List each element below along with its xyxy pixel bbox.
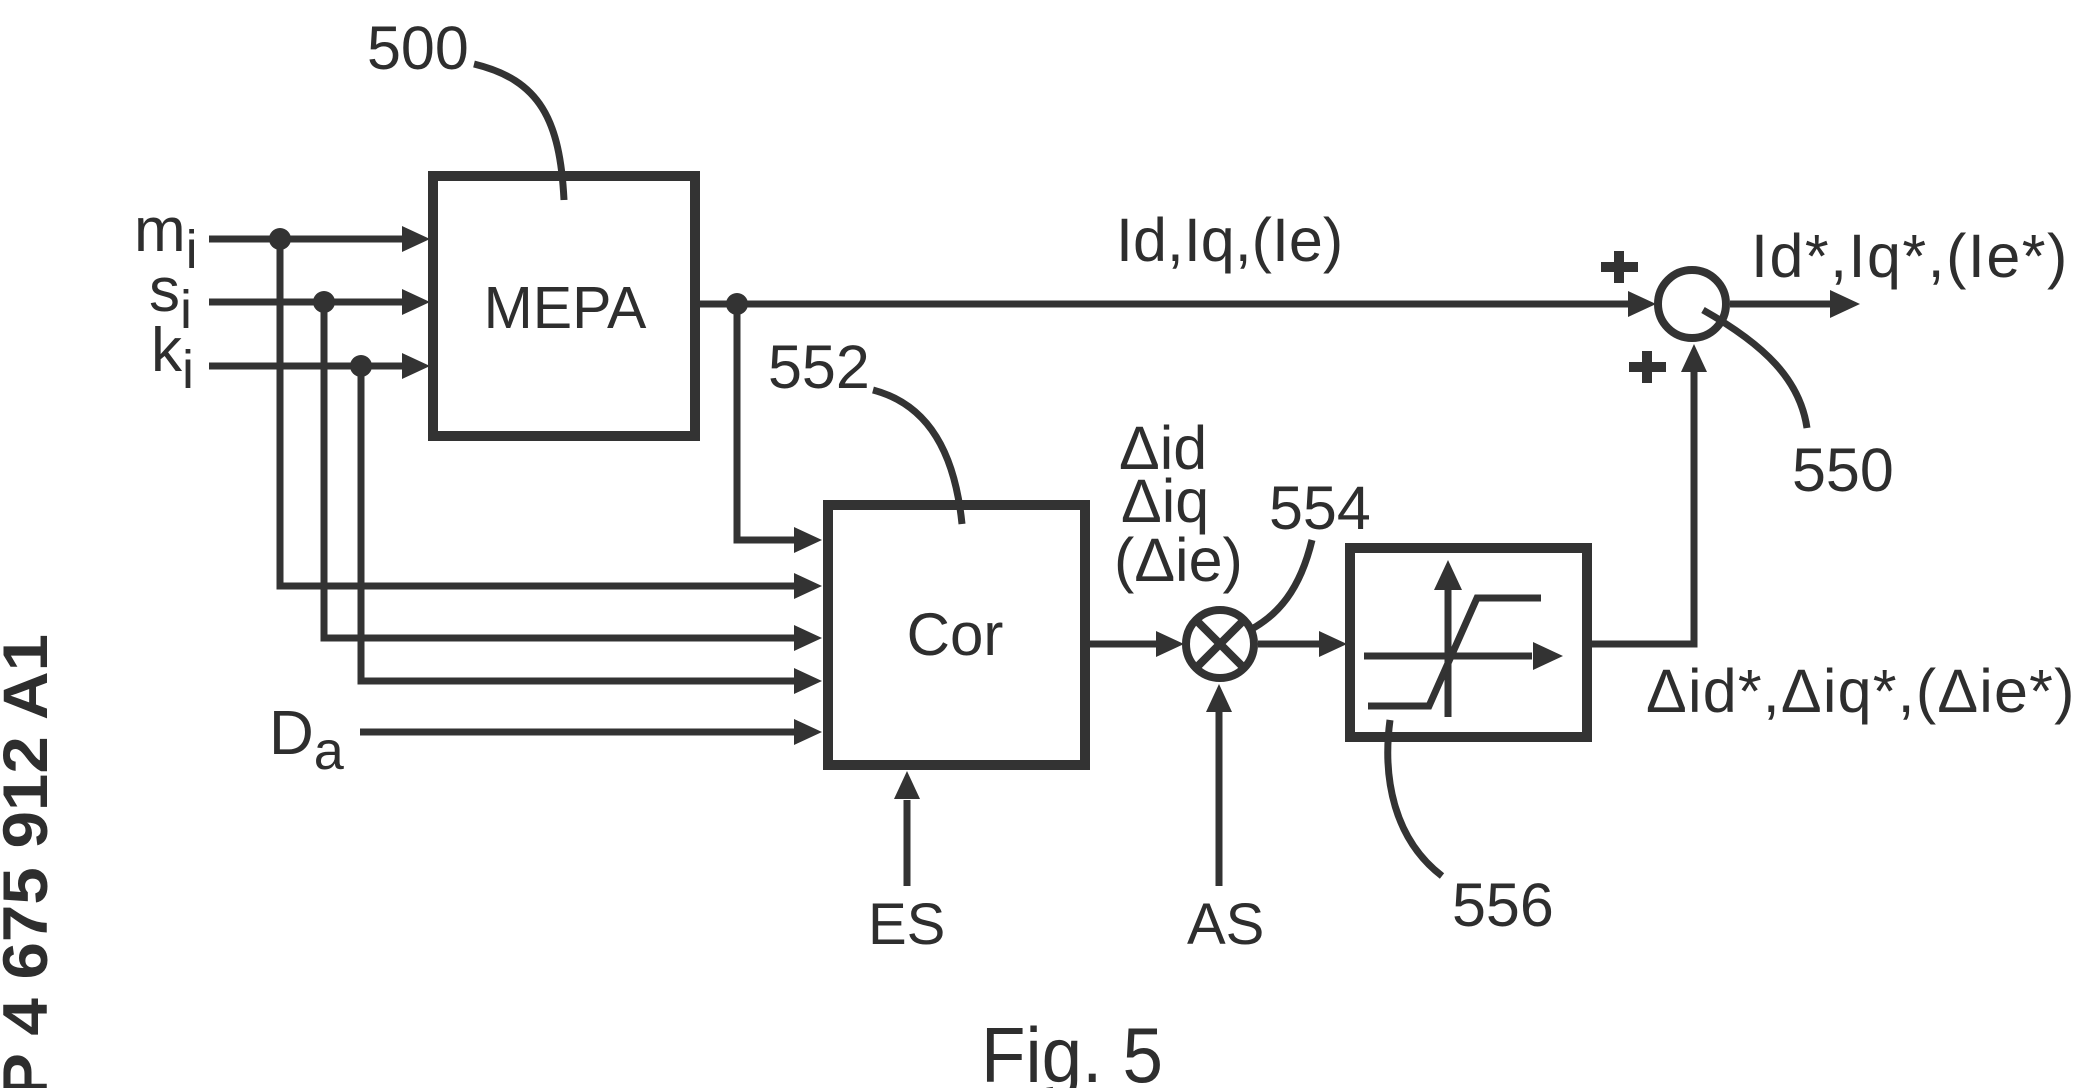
block limiter (556) (1350, 548, 1587, 737)
svg-text:Δiq: Δiq (1121, 467, 1209, 535)
plus sign upper (1601, 251, 1638, 283)
wire multiplier to limiter (1258, 641, 1321, 648)
summing output arrow (1730, 301, 1832, 308)
svg-text:P 4 675 912 A1: P 4 675 912 A1 (0, 634, 61, 1088)
wire MEPA output to summing junction (695, 301, 1630, 308)
node on s wire (313, 291, 335, 313)
leader 556 (1388, 720, 1442, 876)
leader 554 (1250, 540, 1312, 630)
node on m wire (269, 228, 291, 250)
limiter saturation curve (1368, 598, 1541, 706)
multiplier circle 554 (1186, 610, 1254, 678)
block MEPA (500) (433, 176, 695, 436)
wire Cor output to multiplier (1085, 641, 1158, 648)
leader 550 (1703, 310, 1807, 428)
limiter vertical axis (1445, 588, 1452, 717)
limiter horizontal axis (1364, 653, 1532, 660)
svg-text:Δid*,Δiq*,(Δie*): Δid*,Δiq*,(Δie*) (1646, 657, 2074, 725)
leader 552 (873, 390, 962, 524)
AS input arrow into multiplier (1216, 712, 1223, 886)
wire k into MEPA (209, 363, 404, 370)
svg-text:550: 550 (1792, 436, 1894, 504)
svg-text:Da: Da (269, 699, 345, 781)
leader 500 (474, 64, 564, 200)
svg-text:ES: ES (868, 892, 945, 957)
wire limiter output up to summing junction (1587, 372, 1694, 644)
wire Da into Cor (360, 729, 796, 736)
node on k wire (350, 355, 372, 377)
wire s branch down to Cor (324, 302, 796, 638)
svg-text:(Δie): (Δie) (1114, 526, 1243, 594)
wire m into MEPA (209, 236, 404, 243)
summing junction 550 (1658, 270, 1726, 338)
ES input arrow into Cor (904, 800, 911, 886)
svg-text:556: 556 (1452, 871, 1554, 939)
node on MEPA output (726, 293, 748, 315)
wire branch from MEPA output down into Cor (737, 304, 796, 540)
wire k branch down to Cor (361, 366, 796, 681)
svg-text:554: 554 (1269, 474, 1371, 542)
plus sign lower (1629, 351, 1666, 383)
wire m branch down to Cor (280, 239, 796, 586)
wire s into MEPA (209, 299, 404, 306)
svg-text:Id*,Iq*,(Ie*): Id*,Iq*,(Ie*) (1751, 222, 2069, 290)
svg-text:500: 500 (367, 14, 469, 82)
block Cor (552) (828, 505, 1085, 765)
svg-text:Fig. 5: Fig. 5 (981, 1011, 1163, 1088)
svg-text:MEPA: MEPA (484, 275, 647, 341)
svg-text:552: 552 (768, 333, 870, 401)
svg-text:AS: AS (1187, 892, 1264, 957)
svg-text:Cor: Cor (907, 601, 1004, 668)
svg-text:Id,Iq,(Ie): Id,Iq,(Ie) (1116, 206, 1343, 274)
